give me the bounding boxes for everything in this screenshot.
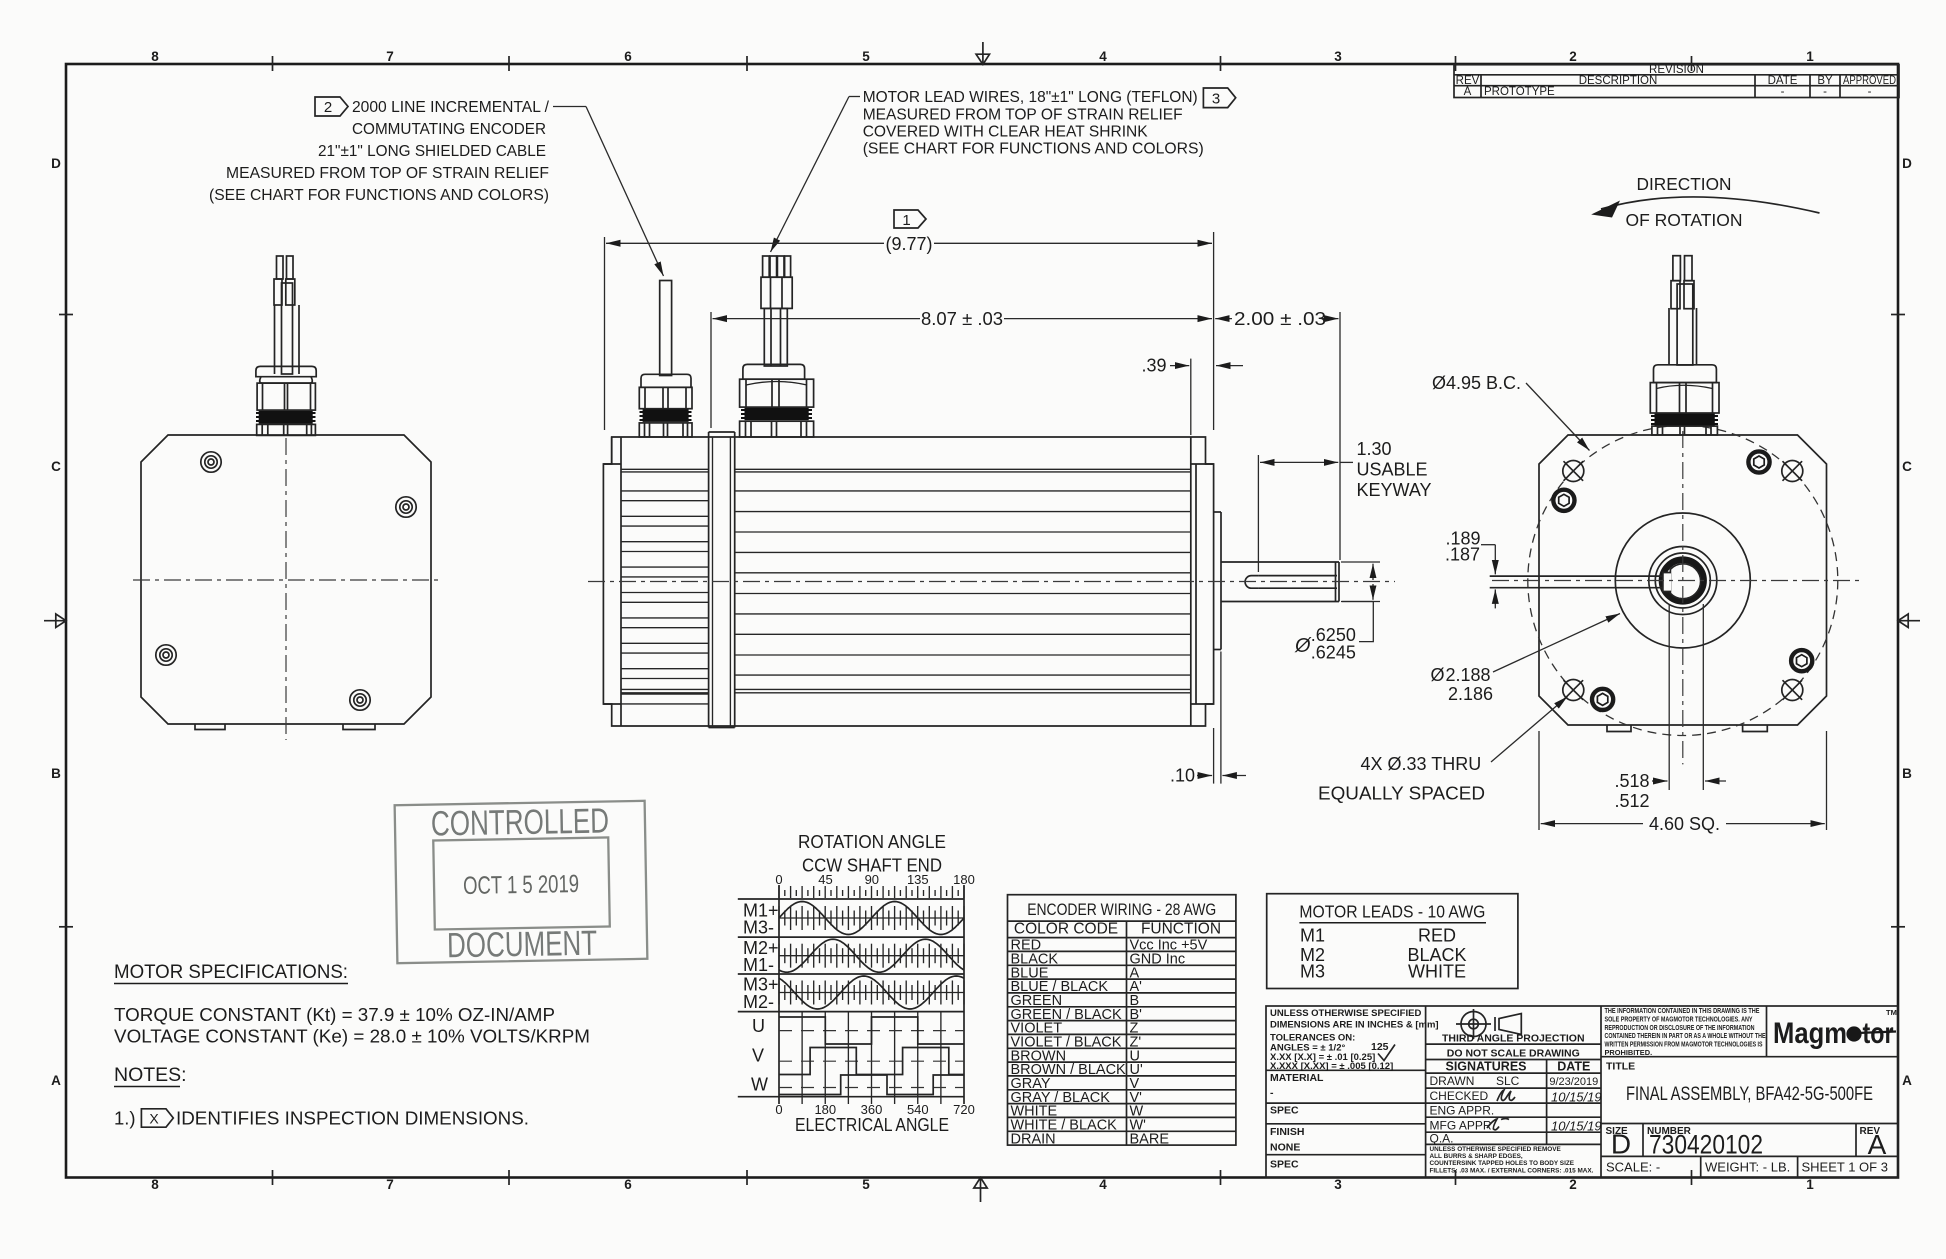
- leader 4x .33: [1491, 697, 1568, 763]
- direction of rotation label: [1626, 174, 1743, 230]
- side view rear section fins: [621, 491, 709, 704]
- zone tick marks left and right: [59, 315, 1905, 927]
- svg-text:A: A: [1868, 1129, 1887, 1160]
- front view foot right: [1743, 725, 1768, 732]
- svg-text:5: 5: [862, 49, 870, 64]
- svg-text:M3-: M3-: [743, 918, 774, 938]
- svg-text:MOTOR LEAD WIRES, 18"±1" LONG: MOTOR LEAD WIRES, 18"±1" LONG (TEFLON): [863, 89, 1198, 106]
- svg-text:KEYWAY: KEYWAY: [1357, 480, 1432, 500]
- svg-text:3: 3: [1212, 91, 1220, 108]
- svg-text:4X Ø.33 THRU: 4X Ø.33 THRU: [1361, 754, 1482, 774]
- svg-text:1.30: 1.30: [1357, 439, 1392, 459]
- rear view connector: strain relief tubes: [275, 283, 300, 374]
- svg-text:1: 1: [902, 212, 910, 229]
- motor leads rows: [1300, 926, 1467, 982]
- svg-text:OCT 1 5 2019: OCT 1 5 2019: [463, 870, 579, 900]
- front view connector cap: [1654, 365, 1717, 383]
- dimension 4.60 SQ. extension lines: [1539, 731, 1827, 830]
- dimension (9.77) extension line left: [604, 237, 606, 430]
- chart row separator lines: [738, 899, 964, 1097]
- front view flange octagon: [1539, 435, 1827, 725]
- svg-text:6: 6: [624, 1177, 632, 1192]
- encoder annotation text block: [209, 99, 550, 204]
- side view fin bottom boundary: [621, 689, 1191, 692]
- right column rows: [1601, 1006, 1898, 1156]
- svg-text:C: C: [1902, 459, 1912, 474]
- svg-text:X.XXX [X.XX] = ± .005 [0.12]: X.XXX [X.XX] = ± .005 [0.12]: [1270, 1061, 1393, 1072]
- svg-text:OF ROTATION: OF ROTATION: [1626, 210, 1743, 230]
- svg-text:730420102: 730420102: [1649, 1130, 1763, 1160]
- chart top ruler ticks: [779, 886, 964, 898]
- front view centerline horizontal: [1492, 580, 1864, 582]
- side view encoder connector cap: [641, 374, 691, 387]
- svg-text:MATERIAL: MATERIAL: [1270, 1072, 1324, 1084]
- projection box rows: [1426, 1044, 1601, 1144]
- svg-text:RED: RED: [1418, 926, 1456, 946]
- svg-text:ALL BURRS & SHARP EDGES,: ALL BURRS & SHARP EDGES,: [1430, 1153, 1523, 1160]
- front view thru hole upper-right (x-marked): [1782, 461, 1803, 482]
- svg-text:ROTATION ANGLE: ROTATION ANGLE: [798, 832, 946, 852]
- dimension .189/.187: [1445, 529, 1481, 565]
- svg-text:1.): 1.): [114, 1108, 136, 1129]
- svg-text:(SEE CHART FOR FUNCTIONS AND C: (SEE CHART FOR FUNCTIONS AND COLORS): [863, 141, 1204, 158]
- svg-text:WHITE: WHITE: [1408, 962, 1466, 982]
- svg-text:REV: REV: [1456, 75, 1480, 87]
- svg-text:-: -: [1781, 86, 1785, 98]
- scale weight sheet row: [1701, 1156, 1798, 1177]
- svg-text:COMMUTATING ENCODER: COMMUTATING ENCODER: [352, 121, 546, 138]
- svg-text:TITLE: TITLE: [1606, 1061, 1635, 1073]
- svg-text:ENCODER WIRING - 28 AWG: ENCODER WIRING - 28 AWG: [1027, 900, 1216, 919]
- svg-text:(9.77): (9.77): [886, 234, 933, 254]
- svg-text:VOLTAGE CONSTANT (Ke) = 28.0 ±: VOLTAGE CONSTANT (Ke) = 28.0 ± 10% VOLTS…: [114, 1026, 590, 1047]
- magmotor logo: [1773, 1008, 1897, 1050]
- svg-text:V: V: [752, 1046, 764, 1066]
- svg-text:6: 6: [624, 49, 632, 64]
- rear view screw top-left: [201, 452, 221, 472]
- mfg appr signature: [1487, 1119, 1509, 1130]
- svg-text:W: W: [751, 1075, 768, 1095]
- side view encoder connector cable: [660, 281, 672, 376]
- leader 4.95 B.C.: [1526, 383, 1590, 451]
- svg-text:2: 2: [1569, 1177, 1577, 1192]
- svg-text:21"±1" LONG SHIELDED CABLE: 21"±1" LONG SHIELDED CABLE: [318, 143, 546, 160]
- direction of rotation arc arrow: [1601, 197, 1820, 213]
- svg-text:4: 4: [1099, 1177, 1107, 1192]
- side view lead connector gland: [740, 379, 814, 407]
- svg-text:7: 7: [386, 1177, 394, 1192]
- svg-text:720: 720: [953, 1102, 975, 1117]
- svg-text:NONE: NONE: [1270, 1142, 1300, 1154]
- zone labels bottom: [151, 1177, 1814, 1192]
- svg-text:DO NOT SCALE DRAWING: DO NOT SCALE DRAWING: [1447, 1048, 1580, 1060]
- rear view centerline horizontal: [133, 579, 439, 581]
- hall V waveform: [779, 1048, 964, 1075]
- chart phase labels: [743, 901, 779, 1095]
- svg-text:MEASURED FROM TOP OF STRAIN RE: MEASURED FROM TOP OF STRAIN RELIEF: [226, 165, 549, 182]
- encoder wiring table rows: [1011, 938, 1208, 1148]
- centering mark right: [1898, 614, 1920, 627]
- centering mark bottom: [974, 1178, 987, 1203]
- svg-text:4.60 SQ.: 4.60 SQ.: [1649, 814, 1720, 834]
- svg-text:MFG APPR.: MFG APPR.: [1430, 1119, 1495, 1133]
- zone labels left: [51, 156, 61, 1088]
- svg-text:.39: .39: [1141, 356, 1166, 376]
- rear view screw bottom: [350, 690, 370, 710]
- flag note 1: [894, 210, 926, 229]
- svg-text:DOCUMENT: DOCUMENT: [447, 924, 598, 966]
- svg-text:2000 LINE INCREMENTAL /: 2000 LINE INCREMENTAL /: [352, 99, 550, 116]
- svg-text:3: 3: [1334, 49, 1342, 64]
- dimension .518/.512: [1614, 771, 1649, 811]
- svg-text:10/15/19: 10/15/19: [1551, 1119, 1602, 1134]
- svg-text:D: D: [1902, 156, 1912, 171]
- front view shaft collar (thick black ring): [1662, 560, 1704, 602]
- svg-text:DIRECTION: DIRECTION: [1637, 174, 1732, 194]
- svg-text:UNLESS OTHERWISE SPECIFIED: UNLESS OTHERWISE SPECIFIED: [1270, 1008, 1421, 1019]
- rear view centerline vertical: [285, 438, 287, 740]
- side view lead connector lock nut: [740, 421, 814, 437]
- front view bearing circle inner: [1655, 553, 1710, 608]
- side view fin top boundary: [621, 469, 1191, 472]
- side view shaft keyway flat: [1245, 576, 1337, 589]
- svg-text:THIRD ANGLE PROJECTION: THIRD ANGLE PROJECTION: [1442, 1033, 1585, 1045]
- side view front cap lines: [1191, 437, 1214, 726]
- svg-text:2.186: 2.186: [1448, 684, 1493, 704]
- rear view body octagon: [141, 435, 431, 724]
- svg-text:.512: .512: [1614, 791, 1649, 811]
- front view hex screw upper-left: [1553, 490, 1574, 511]
- front view connector wires: [1669, 256, 1697, 365]
- svg-text:Ø: Ø: [1294, 635, 1312, 657]
- tolerance column rows: [1266, 1070, 1426, 1154]
- side view pilot boss: [1214, 512, 1221, 650]
- dimension (9.77): [606, 242, 1212, 244]
- centering mark left: [44, 614, 66, 627]
- svg-text:125: 125: [1371, 1041, 1389, 1053]
- hall section gridlines: [802, 1012, 941, 1104]
- svg-text:PROHIBITED.: PROHIBITED.: [1605, 1048, 1653, 1057]
- svg-text:-: -: [1868, 86, 1872, 98]
- rear view connector: gland nut: [257, 383, 315, 410]
- zone tick marks top: [273, 56, 1692, 71]
- rear view screw bottom-left: [156, 645, 176, 665]
- svg-text:SCALE: -: SCALE: -: [1606, 1160, 1660, 1175]
- svg-text:X: X: [149, 1111, 159, 1127]
- svg-text:90: 90: [865, 872, 879, 887]
- svg-text:1: 1: [1806, 49, 1814, 64]
- title block outer frame: [1266, 1006, 1898, 1178]
- front view pilot circle: [1615, 513, 1750, 648]
- svg-text:D: D: [51, 156, 61, 171]
- checked signature squiggle: [1497, 1090, 1515, 1101]
- rear view foot left: [195, 724, 225, 730]
- svg-text:(SEE CHART FOR FUNCTIONS AND C: (SEE CHART FOR FUNCTIONS AND COLORS): [209, 187, 549, 204]
- revision table text: [1456, 64, 1896, 98]
- svg-text:TORQUE CONSTANT (Kt) = 37.9 ±: TORQUE CONSTANT (Kt) = 37.9 ± 10% OZ-IN/…: [114, 1004, 555, 1025]
- hall U waveform: [779, 1017, 964, 1044]
- svg-text:C: C: [51, 459, 61, 474]
- svg-text:5: 5: [862, 1177, 870, 1192]
- label 4x .33 thru: [1318, 754, 1485, 804]
- svg-text:9/23/2019: 9/23/2019: [1549, 1076, 1598, 1088]
- flag note 3: [1203, 88, 1235, 108]
- svg-text:3: 3: [1334, 1177, 1342, 1192]
- svg-text:0: 0: [775, 1102, 782, 1117]
- front view bearing circle outer: [1649, 547, 1717, 615]
- dimension shaft diameter .6250/.6245: [1341, 562, 1380, 642]
- svg-text:DRAWN: DRAWN: [1430, 1074, 1475, 1088]
- svg-text:45: 45: [818, 872, 832, 887]
- svg-text:.518: .518: [1614, 771, 1649, 791]
- svg-text:10/15/19: 10/15/19: [1551, 1090, 1602, 1105]
- proprietary note: [1605, 1006, 1766, 1057]
- svg-text:UNLESS OTHERWISE SPECIFIED REM: UNLESS OTHERWISE SPECIFIED REMOVE: [1430, 1146, 1562, 1153]
- svg-text:M1: M1: [1300, 926, 1325, 946]
- svg-text:2.00 ± .03: 2.00 ± .03: [1234, 309, 1326, 329]
- dimension .10: [1197, 652, 1246, 784]
- tolerance column text: [1270, 1008, 1439, 1072]
- svg-text:BARE: BARE: [1130, 1131, 1170, 1147]
- svg-text:8.07 ± .03: 8.07 ± .03: [921, 309, 1003, 329]
- side view encoder connector o-ring: [643, 410, 689, 422]
- svg-text:COLOR CODE: COLOR CODE: [1014, 921, 1118, 938]
- chart axes vertical: [779, 885, 964, 1104]
- svg-text:B: B: [51, 766, 61, 781]
- motor lead wires annotation text block: [863, 89, 1204, 158]
- svg-text:NOTES:: NOTES:: [114, 1064, 187, 1086]
- side view body outline (stepped end caps): [603, 437, 1213, 726]
- svg-text:COVERED WITH CLEAR HEAT SHRINK: COVERED WITH CLEAR HEAT SHRINK: [863, 123, 1148, 140]
- motor leads box: [1267, 894, 1518, 989]
- front view hex screw lower-left: [1592, 689, 1613, 710]
- sine wave M3: [779, 976, 964, 1009]
- svg-text:BY: BY: [1817, 75, 1833, 87]
- signature rows: [1430, 1074, 1520, 1146]
- hall dashed center lines: [779, 1031, 964, 1088]
- svg-text:ENG APPR.: ENG APPR.: [1430, 1104, 1495, 1118]
- svg-text:8: 8: [151, 49, 159, 64]
- svg-text:DRAIN: DRAIN: [1011, 1131, 1056, 1147]
- svg-text:SPEC: SPEC: [1270, 1105, 1299, 1117]
- front view bolt circle (dashed): [1528, 426, 1838, 736]
- dimension .518/.512 extension lines: [1669, 604, 1703, 790]
- svg-text:M2-: M2-: [743, 992, 774, 1012]
- front view hex screw upper-right: [1748, 451, 1769, 472]
- svg-text:2: 2: [1569, 49, 1577, 64]
- svg-text:DIMENSIONS ARE IN INCHES & [mm: DIMENSIONS ARE IN INCHES & [mm]: [1270, 1020, 1439, 1031]
- leader 2.188: [1493, 614, 1620, 673]
- dimension 8.07 extension line (flange face): [710, 312, 712, 428]
- side view shaft: [1221, 562, 1339, 602]
- svg-text:Q.A.: Q.A.: [1430, 1132, 1454, 1146]
- front view connector o-ring: [1655, 414, 1715, 427]
- svg-text:FINAL ASSEMBLY, BFA42-5G-500FE: FINAL ASSEMBLY, BFA42-5G-500FE: [1626, 1084, 1873, 1105]
- svg-text:SIGNATURES: SIGNATURES: [1445, 1060, 1526, 1074]
- revision table: [1454, 65, 1899, 98]
- side view lead connector cap: [743, 364, 805, 379]
- side view mounting flange band: [709, 432, 735, 728]
- svg-text:7: 7: [386, 49, 394, 64]
- svg-text:PROTOTYPE: PROTOTYPE: [1484, 86, 1555, 98]
- svg-text:2: 2: [324, 99, 332, 116]
- rear view connector: cap: [256, 366, 316, 376]
- dimension 8.07: [713, 318, 1213, 320]
- svg-text:EQUALLY SPACED: EQUALLY SPACED: [1318, 784, 1485, 804]
- encoder wiring table frame: [1008, 895, 1236, 1145]
- zone labels top: [151, 49, 1814, 64]
- title block main verticals: [1426, 1006, 1601, 1178]
- rear view connector: lock nut: [257, 424, 316, 435]
- sine wave M2: [779, 939, 964, 972]
- front view connector lock nut: [1652, 426, 1718, 435]
- svg-text:M1-: M1-: [743, 955, 774, 975]
- svg-text:MOTOR SPECIFICATIONS:: MOTOR SPECIFICATIONS:: [114, 961, 348, 983]
- side view rear cap corner verticals: [611, 437, 613, 464]
- side view lead connector o-ring: [745, 408, 809, 420]
- rear view connector: cap lower lip: [260, 377, 313, 383]
- svg-text:DESCRIPTION: DESCRIPTION: [1579, 75, 1658, 87]
- side view rear cap inner line: [620, 437, 622, 726]
- zone labels right: [1902, 156, 1912, 1088]
- chart top axis numbers: [775, 872, 974, 887]
- svg-text:180: 180: [953, 872, 975, 887]
- rear view foot right: [343, 724, 375, 730]
- svg-text:-: -: [1270, 1087, 1274, 1099]
- svg-text:APPROVED: APPROVED: [1843, 75, 1896, 87]
- svg-text:M3: M3: [1300, 962, 1325, 982]
- sine row rulers: [779, 906, 964, 1005]
- svg-text:WEIGHT: - LB.: WEIGHT: - LB.: [1705, 1160, 1790, 1175]
- svg-text:TM: TM: [1886, 1008, 1897, 1017]
- leader from motor lead note to lead wires: [771, 97, 861, 253]
- front view hex screw lower-right: [1791, 650, 1812, 671]
- svg-text:CONTROLLED: CONTROLLED: [431, 801, 610, 843]
- svg-text:135: 135: [907, 872, 929, 887]
- front view thru hole upper-left (x-marked): [1563, 461, 1584, 482]
- svg-text:.187: .187: [1445, 545, 1480, 565]
- svg-text:A: A: [1464, 86, 1472, 98]
- dimension 2.00 extension line (shaft end): [1339, 312, 1341, 560]
- front view keyway slot lines: [1490, 576, 1663, 588]
- third angle projection symbol: [1456, 1009, 1521, 1039]
- leader from encoder note to encoder cable: [553, 107, 664, 277]
- svg-text:IDENTIFIES INSPECTION DIMENSIO: IDENTIFIES INSPECTION DIMENSIONS.: [176, 1108, 529, 1129]
- svg-text:.6245: .6245: [1311, 643, 1356, 663]
- flag note 2: [315, 97, 348, 116]
- zone tick marks bottom: [273, 1170, 1692, 1185]
- dimension 2.00: [1215, 318, 1338, 320]
- front view connector gland: [1650, 383, 1719, 413]
- front view keyway slot notch: [1663, 573, 1671, 592]
- svg-text:FILLETS: .03 MAX. / EXTERNAL C: FILLETS: .03 MAX. / EXTERNAL CORNERS: .0…: [1430, 1168, 1594, 1175]
- svg-text:4: 4: [1099, 49, 1107, 64]
- label 2.188/2.186: [1431, 665, 1494, 704]
- svg-text:DATE: DATE: [1768, 75, 1798, 87]
- svg-text:CHECKED: CHECKED: [1430, 1089, 1489, 1103]
- front view centerline vertical: [1682, 431, 1684, 764]
- svg-text:ELECTRICAL ANGLE: ELECTRICAL ANGLE: [795, 1115, 949, 1135]
- svg-text:MEASURED FROM TOP OF STRAIN RE: MEASURED FROM TOP OF STRAIN RELIEF: [863, 106, 1183, 123]
- svg-text:Ø2.188: Ø2.188: [1431, 665, 1491, 685]
- front view thru hole lower-right (x-marked): [1782, 680, 1803, 701]
- side view shaft centerline: [588, 581, 1395, 583]
- dimension (9.77) extension line right (motor face): [1213, 232, 1215, 430]
- svg-text:B: B: [1902, 766, 1912, 781]
- svg-text:SHEET 1 OF 3: SHEET 1 OF 3: [1802, 1160, 1888, 1175]
- side view rear cap bottom step: [603, 703, 621, 705]
- svg-text:SPEC: SPEC: [1270, 1159, 1299, 1171]
- rear view connector: o-ring (black): [259, 411, 313, 424]
- front view thru hole lower-left (x-marked): [1563, 680, 1584, 701]
- centering mark top: [976, 42, 989, 65]
- svg-text:USABLE: USABLE: [1357, 459, 1428, 479]
- svg-text:A: A: [51, 1073, 61, 1088]
- side view main section fins: [735, 491, 1191, 675]
- svg-text:FINISH: FINISH: [1270, 1126, 1304, 1138]
- front view shaft circle with keyway flat: [1670, 564, 1700, 599]
- svg-text:0: 0: [775, 872, 782, 887]
- front view foot left: [1607, 725, 1631, 732]
- side view encoder connector gland: [639, 387, 692, 408]
- hall W waveform: [779, 1075, 964, 1095]
- sine wave M1: [779, 902, 964, 935]
- svg-text:8: 8: [151, 1177, 159, 1192]
- size number rev row: [1643, 1124, 1856, 1157]
- side view lead connector wires: [761, 256, 792, 366]
- rear view connector: wires: [274, 256, 295, 305]
- dimension 4.60 SQ.: [1541, 823, 1825, 825]
- svg-text:COUNTERSINK TAPPED HOLES TO BO: COUNTERSINK TAPPED HOLES TO BODY SIZE: [1430, 1160, 1575, 1167]
- svg-text:U: U: [752, 1016, 765, 1036]
- chart bottom axis numbers: [775, 1102, 974, 1117]
- svg-text:Ø4.95 B.C.: Ø4.95 B.C.: [1432, 373, 1521, 393]
- svg-text:-: -: [1823, 86, 1827, 98]
- svg-text:SLC: SLC: [1496, 1074, 1520, 1088]
- controlled document stamp: [395, 801, 648, 963]
- rear view screw right: [396, 497, 416, 517]
- svg-text:.10: .10: [1170, 766, 1195, 786]
- side view rear cap top step: [603, 463, 621, 465]
- svg-text:DATE: DATE: [1557, 1060, 1590, 1074]
- svg-text:D: D: [1611, 1129, 1631, 1160]
- svg-text:FUNCTION: FUNCTION: [1141, 921, 1221, 938]
- svg-text:Magm: Magm: [1773, 1017, 1847, 1050]
- svg-text:A: A: [1902, 1073, 1912, 1088]
- svg-text:1: 1: [1806, 1177, 1814, 1192]
- burrs note: [1430, 1146, 1594, 1175]
- svg-text:MOTOR LEADS - 10 AWG: MOTOR LEADS - 10 AWG: [1299, 902, 1485, 922]
- side view encoder connector lock nut: [639, 423, 692, 437]
- dimension 1.30 usable keyway: [1258, 455, 1353, 572]
